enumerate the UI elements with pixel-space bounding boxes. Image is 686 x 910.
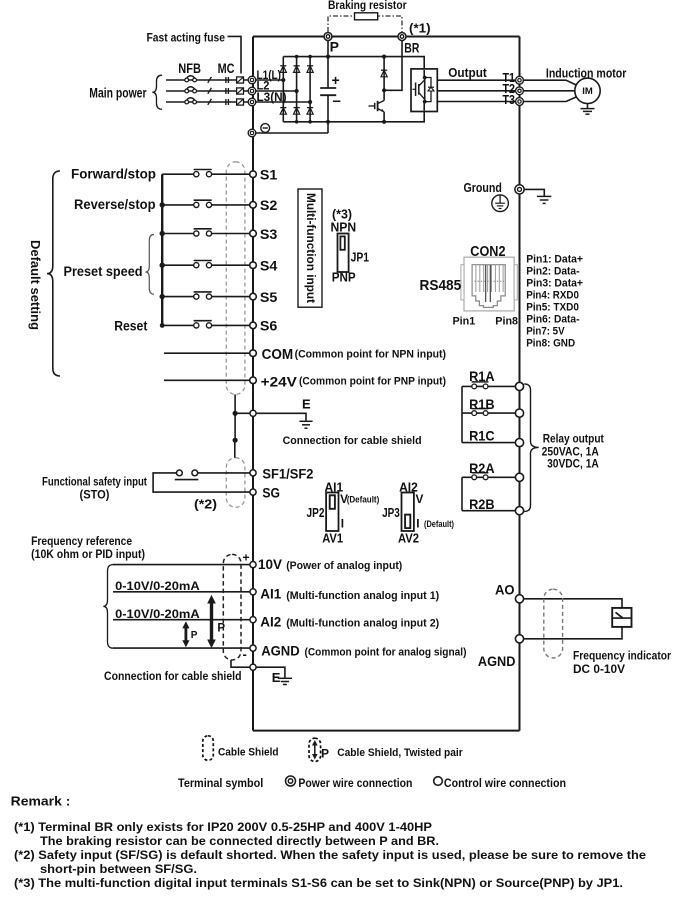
terminal R1C	[515, 439, 523, 447]
wire phase S	[166, 90, 250, 92]
legend power wire symbol	[286, 776, 296, 786]
svg-text:Relay output: Relay output	[543, 433, 604, 445]
wire V to T2	[437, 90, 515, 92]
capacitor wire to DC-	[327, 95, 329, 133]
svg-text:Frequency reference: Frequency reference	[31, 536, 132, 548]
node shield E junction	[233, 411, 238, 416]
fast acting fuse callout wire	[228, 36, 242, 73]
svg-text:AV2: AV2	[398, 531, 419, 546]
svg-text:I: I	[341, 517, 344, 531]
node bus S2	[160, 202, 165, 207]
contactor MC pole2	[226, 88, 229, 94]
enclosure top edge wire	[253, 36, 520, 38]
svg-text:Remark :: Remark :	[11, 795, 71, 809]
svg-text:(Common point for PNP input): (Common point for PNP input)	[299, 376, 446, 388]
terminal COM	[250, 350, 257, 357]
wire S6	[162, 324, 250, 326]
wire S5	[162, 296, 250, 298]
transistor Q1 IGBT	[369, 90, 385, 122]
wire AI1	[113, 591, 250, 593]
enclosure left edge wire	[252, 37, 254, 731]
rectifier DC+ bus wire	[283, 57, 424, 69]
digital input bus wire	[161, 174, 163, 325]
svg-text:P: P	[321, 747, 329, 761]
svg-text:short-pin between SF/SG.: short-pin between SF/SG.	[40, 862, 197, 876]
terminal S4	[250, 262, 257, 269]
wire E2 to earth	[256, 667, 285, 678]
terminal L1(L)	[248, 76, 256, 84]
svg-text:(Multi-function analog input 1: (Multi-function analog input 1)	[286, 590, 439, 602]
fuse F1	[237, 77, 244, 83]
rectifier leg3 wire	[309, 57, 311, 122]
terminal AI1	[250, 589, 256, 595]
svg-text:V: V	[416, 492, 424, 506]
shield oval AO	[544, 589, 563, 658]
svg-text:IM: IM	[582, 86, 593, 97]
svg-text:Pin3: Data+: Pin3: Data+	[526, 278, 583, 290]
terminal Ground	[515, 185, 524, 194]
svg-text:P: P	[330, 38, 339, 54]
relay output brace	[524, 384, 539, 512]
svg-text:AGND: AGND	[261, 643, 300, 658]
node L3-bridge	[308, 100, 312, 104]
svg-text:BR: BR	[404, 39, 419, 55]
node leg3 bottom	[308, 120, 312, 124]
braking resistor dash-dot wire	[328, 16, 402, 32]
relay R1C wire	[462, 442, 516, 444]
node chopper mid	[382, 88, 386, 92]
svg-text:R1C: R1C	[469, 428, 495, 443]
svg-text:(Common point for analog signa: (Common point for analog signal)	[305, 646, 467, 658]
wire S4	[162, 264, 250, 266]
contactor MC pole1	[226, 77, 229, 83]
terminal L3(N)	[248, 98, 256, 106]
svg-text:(*3) The multi-function digita: (*3) The multi-function digital input te…	[14, 876, 623, 890]
svg-text:Reverse/stop: Reverse/stop	[74, 197, 156, 212]
disconnect slash pole3	[208, 99, 212, 105]
switch S1	[194, 170, 212, 177]
svg-text:250VAC, 1A: 250VAC, 1A	[542, 447, 599, 459]
svg-text:Cable Shield: Cable Shield	[218, 746, 279, 758]
RS485 connector CON2	[461, 257, 517, 311]
wire T1 to motor	[523, 80, 577, 85]
breaker NFB pole2	[185, 87, 197, 93]
terminal AGND	[250, 645, 256, 651]
wire DC minus to bus	[256, 132, 328, 134]
legend oval twisted pair	[309, 738, 321, 761]
node L2-bridge	[295, 89, 299, 93]
svg-text:Ground: Ground	[464, 181, 502, 195]
svg-text:Frequency indicator: Frequency indicator	[573, 648, 671, 662]
wire SF contact to terminal	[198, 472, 250, 474]
svg-text:Pin1: Data+: Pin1: Data+	[526, 254, 583, 266]
svg-text:AI2: AI2	[260, 614, 281, 629]
terminal R1A	[515, 382, 523, 390]
relay R2A contact	[472, 473, 489, 480]
switch S5	[194, 292, 212, 299]
svg-text:30VDC, 1A: 30VDC, 1A	[547, 459, 599, 471]
terminal T3	[516, 98, 524, 106]
terminal R1B	[515, 409, 523, 417]
motor ground	[581, 104, 595, 115]
svg-text:I: I	[416, 517, 419, 531]
svg-text:E: E	[302, 396, 311, 411]
svg-text:+: +	[243, 551, 250, 565]
svg-text:R1B: R1B	[469, 397, 495, 412]
svg-text:0-10V/0-20mA: 0-10V/0-20mA	[115, 579, 200, 593]
terminal shield E2	[250, 664, 256, 670]
terminal SF1/SF2	[250, 470, 256, 476]
terminal T1	[516, 76, 524, 84]
multi-function input box	[298, 189, 322, 307]
svg-text:NPN: NPN	[331, 220, 357, 235]
terminal +24V	[250, 377, 257, 384]
switch STO	[175, 470, 199, 480]
wire E to earth	[256, 413, 306, 421]
fuse F3	[237, 99, 244, 105]
svg-text:S1: S1	[260, 168, 278, 183]
svg-text:Reset: Reset	[114, 319, 148, 334]
svg-text:(*2) Safety input (SF/SG) is d: (*2) Safety input (SF/SG) is default sho…	[14, 848, 646, 862]
ground earth wire	[524, 189, 544, 196]
label relay output	[542, 433, 604, 470]
terminal S5	[250, 293, 257, 300]
node bus S5	[160, 294, 165, 299]
wire L2 to bridge	[256, 90, 297, 92]
preset speed bracket	[146, 235, 155, 295]
induction motor M1	[575, 78, 600, 103]
svg-text:Terminal symbol: Terminal symbol	[178, 778, 263, 790]
svg-text:R2B: R2B	[469, 497, 495, 512]
terminal S2	[250, 202, 257, 209]
analog shield tail wire	[231, 660, 250, 667]
svg-text:JP3: JP3	[382, 505, 400, 520]
arrow P small	[182, 621, 189, 647]
svg-text:10V: 10V	[258, 556, 283, 572]
rectifier DC- bus wire	[283, 112, 424, 122]
braking resistor RB	[355, 13, 378, 20]
svg-text:Power wire connection: Power wire connection	[298, 778, 412, 790]
earth symbol right of ground terminal	[537, 196, 551, 203]
wire AGND	[113, 647, 250, 649]
node chopper emitter bus	[382, 120, 386, 124]
arrow P large	[207, 595, 216, 648]
svg-text:PNP: PNP	[332, 270, 356, 285]
inverter output block U1	[411, 69, 437, 112]
relay R1A contact	[472, 382, 489, 389]
wire BR to chopper	[384, 41, 402, 91]
svg-text:Output: Output	[448, 65, 487, 80]
svg-text:T3: T3	[503, 93, 516, 107]
svg-text:Cable Shield, Twisted pair: Cable Shield, Twisted pair	[337, 747, 463, 759]
wire COM	[164, 352, 250, 354]
wire L3 to bridge	[256, 101, 310, 103]
pin list	[526, 254, 583, 350]
terminal BR	[398, 33, 406, 41]
svg-text:Preset speed: Preset speed	[64, 264, 143, 279]
svg-text:E: E	[272, 670, 281, 685]
svg-text:P: P	[191, 630, 198, 641]
svg-text:(Default): (Default)	[424, 519, 454, 529]
svg-text:Multi-function input: Multi-function input	[304, 193, 316, 303]
terminal E	[250, 410, 256, 416]
svg-text:MC: MC	[218, 61, 235, 76]
relay group 1 common wire	[461, 386, 463, 442]
meter frequency indicator	[612, 608, 631, 627]
wire P to DC bus	[327, 41, 329, 89]
wire S1	[162, 173, 250, 175]
svg-text:(Default): (Default)	[347, 494, 380, 504]
svg-text:The braking resistor can be co: The braking resistor can be connected di…	[40, 834, 439, 848]
svg-text:(*1): (*1)	[409, 21, 431, 36]
svg-text:Pin7: 5V: Pin7: 5V	[526, 326, 565, 338]
svg-text:Connection for cable shield: Connection for cable shield	[104, 671, 242, 683]
terminal P	[324, 33, 332, 41]
node bus S4	[160, 263, 165, 268]
switch S2	[194, 200, 212, 207]
svg-text:Pin2: Data-: Pin2: Data-	[526, 266, 580, 278]
diode D5	[294, 108, 300, 115]
earth symbol E2	[278, 678, 292, 684]
node leg2 bottom	[295, 120, 299, 124]
svg-text:+24V: +24V	[261, 374, 298, 390]
node shield lower	[233, 438, 238, 443]
svg-text:Braking resistor: Braking resistor	[328, 0, 407, 12]
earth symbol E	[299, 421, 312, 428]
svg-text:Pin8: Pin8	[495, 316, 518, 328]
wire U to T1	[437, 79, 515, 81]
svg-text:Fast acting fuse: Fast acting fuse	[147, 30, 226, 44]
relay R2A wire	[462, 476, 516, 478]
enclosure bottom edge wire	[253, 730, 520, 732]
switch S3	[194, 229, 212, 236]
svg-text:(STO): (STO)	[80, 490, 110, 502]
disconnect slash pole2	[208, 88, 212, 94]
terminal AI2	[250, 617, 256, 623]
svg-text:Default setting: Default setting	[28, 240, 43, 330]
svg-text:S5: S5	[260, 290, 278, 305]
relay R1B contact	[472, 409, 489, 416]
svg-text:S3: S3	[260, 227, 278, 242]
svg-text:(10K ohm or PID input): (10K ohm or PID input)	[31, 549, 145, 561]
relay group 2 common wire	[461, 477, 463, 510]
svg-text:RS485: RS485	[420, 278, 462, 294]
node bus S6	[160, 323, 165, 328]
wire meter to AGND	[524, 627, 622, 639]
svg-text:JP2: JP2	[307, 505, 325, 520]
disconnect slash pole1	[208, 77, 212, 83]
wire AI2	[113, 619, 250, 621]
wire T3 to motor	[523, 96, 577, 101]
shield oval STO	[226, 458, 245, 508]
svg-text:Forward/stop: Forward/stop	[71, 167, 156, 182]
svg-text:NFB: NFB	[178, 61, 201, 76]
svg-text:JP1: JP1	[351, 250, 369, 265]
svg-text:Pin1: Pin1	[453, 316, 476, 328]
svg-text:S6: S6	[260, 319, 278, 334]
diode D2	[294, 66, 300, 73]
wire S3	[162, 233, 250, 235]
svg-text:AV1: AV1	[322, 531, 343, 546]
svg-text:AO: AO	[495, 583, 515, 598]
wire +24V	[164, 379, 250, 381]
wire phase T	[166, 101, 250, 103]
terminal DC minus	[248, 129, 256, 137]
diode D4	[280, 108, 286, 115]
svg-text:(*1) Terminal BR only exists f: (*1) Terminal BR only exists for IP20 20…	[14, 820, 432, 834]
terminal L2	[248, 87, 256, 95]
svg-text:(Power of analog input): (Power of analog input)	[286, 560, 402, 572]
legend oval cable shield	[203, 736, 214, 761]
switch S4	[194, 261, 212, 268]
relay R1B wire	[462, 412, 516, 414]
terminal S3	[250, 230, 257, 237]
node bus S3	[160, 231, 165, 236]
svg-text:Pin4: RXD0: Pin4: RXD0	[526, 290, 579, 302]
node cap top bus	[326, 55, 330, 59]
STO loop wire	[153, 473, 250, 492]
svg-text:S2: S2	[260, 198, 278, 213]
svg-text:(*2): (*2)	[194, 496, 217, 511]
svg-text:Control wire connection: Control wire connection	[444, 778, 566, 790]
svg-text:Connection for cable shield: Connection for cable shield	[283, 435, 422, 447]
diode D6	[307, 108, 313, 115]
jumper JP1	[338, 234, 349, 273]
rectifier leg2 wire	[296, 57, 298, 122]
svg-text:AGND: AGND	[478, 654, 516, 669]
legend control wire symbol	[434, 777, 443, 786]
jumper JP3	[402, 493, 414, 532]
svg-text:(Multi-function analog input 2: (Multi-function analog input 2)	[286, 618, 439, 630]
svg-text:R1A: R1A	[469, 369, 495, 384]
shield drain wire	[234, 394, 236, 440]
wire to E terminal	[235, 412, 250, 414]
node leg2 top	[295, 55, 299, 59]
wire T2 to motor	[523, 90, 575, 92]
shield oval analog	[223, 554, 241, 660]
breaker NFB pole3	[185, 98, 197, 104]
terminal 10V	[250, 562, 256, 568]
diode D3	[307, 66, 313, 73]
contactor MC pole3	[226, 99, 229, 105]
svg-text:SF1/SF2: SF1/SF2	[262, 467, 313, 482]
chopper diode D7	[381, 57, 387, 91]
svg-text:P: P	[217, 623, 225, 635]
inverter block internals	[413, 70, 435, 111]
protective earth symbol	[492, 195, 509, 212]
relay R1A wire	[462, 385, 516, 387]
fuse F2	[237, 88, 244, 94]
node leg3 top	[308, 55, 312, 59]
diode D1	[280, 66, 286, 73]
terminal T2	[516, 87, 524, 95]
frequency brace	[103, 565, 113, 649]
terminal S6	[250, 322, 257, 329]
svg-text:0-10V/0-20mA: 0-10V/0-20mA	[115, 607, 200, 621]
terminal R2A	[515, 473, 523, 481]
svg-text:Pin8: GND: Pin8: GND	[526, 338, 575, 350]
main power brace	[152, 75, 162, 109]
node cap bottom bus	[326, 120, 330, 124]
terminal S1	[250, 171, 257, 178]
wire S2	[162, 204, 250, 206]
wire W to T3	[437, 101, 515, 103]
svg-text:+: +	[332, 72, 340, 88]
default setting brace	[47, 171, 60, 376]
node chopper top	[382, 55, 386, 59]
jumper JP2	[326, 493, 338, 532]
terminal SG	[250, 489, 256, 495]
shield oval digital inputs	[226, 162, 245, 395]
terminal AGND right	[515, 635, 523, 643]
node L1-bridge	[281, 78, 285, 82]
wire L1 to bridge	[256, 79, 283, 81]
svg-text:Main power: Main power	[89, 86, 147, 101]
terminal R2B	[515, 507, 523, 515]
svg-text:SG: SG	[262, 485, 280, 500]
switch S6	[194, 321, 212, 328]
svg-text:Pin6: Data-: Pin6: Data-	[526, 314, 580, 326]
STO shield drain wire	[234, 440, 236, 458]
svg-text:AI1: AI1	[260, 587, 281, 602]
wire phase R	[166, 79, 250, 81]
svg-text:–: –	[333, 93, 341, 110]
enclosure right edge wire	[519, 37, 521, 731]
symbol circled minus	[261, 124, 270, 133]
svg-text:Functional safety input: Functional safety input	[42, 477, 147, 489]
rectifier leg1 wire	[282, 57, 284, 122]
capacitor C1 plates	[320, 88, 336, 95]
relay R2B wire	[462, 510, 516, 512]
svg-text:R2A: R2A	[469, 461, 495, 476]
svg-text:-: -	[243, 647, 247, 662]
svg-text:DC 0-10V: DC 0-10V	[573, 662, 625, 676]
svg-text:Induction motor: Induction motor	[546, 67, 627, 81]
svg-text:COM: COM	[262, 347, 294, 363]
wire AO to meter	[524, 599, 622, 608]
terminal AO	[515, 595, 523, 603]
svg-text:(Common point for NPN input): (Common point for NPN input)	[295, 349, 447, 361]
breaker NFB pole1	[185, 76, 197, 82]
wire 10V	[113, 564, 250, 566]
svg-text:S4: S4	[260, 259, 278, 274]
svg-text:Pin5: TXD0: Pin5: TXD0	[526, 302, 579, 314]
